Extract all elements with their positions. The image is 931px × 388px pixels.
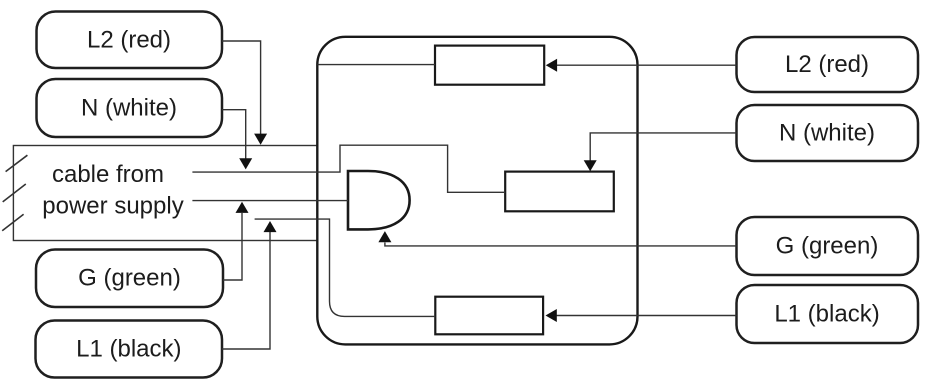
svg-text:L2 (red): L2 (red) (785, 51, 869, 78)
arrowhead N right pointing down (584, 160, 597, 171)
svg-text:cable from: cable from (52, 161, 164, 188)
wire L1 black from cable to bottom terminal (255, 219, 436, 316)
label box G (green) right (737, 217, 919, 275)
svg-text:L1 (black): L1 (black) (774, 300, 879, 327)
wire L2 red inside box to top terminal (317, 64, 435, 66)
wire from L2 left label (222, 41, 261, 134)
terminal block middle (N connector) (505, 172, 614, 212)
wire from L1 right label to bottom terminal (557, 315, 737, 317)
ground lug D-shape (348, 171, 410, 229)
label box L2 (red) right (737, 37, 919, 92)
terminal block bottom (L1 connector) (435, 297, 543, 335)
arrowhead G left pointing up (236, 202, 249, 213)
svg-text:G (green): G (green) (78, 265, 181, 292)
terminal block top (L2 connector) (435, 46, 544, 85)
arrowhead G right pointing up (378, 231, 391, 242)
wire from G right label to ground lug (385, 243, 737, 246)
label box L2 (red) left (37, 12, 223, 69)
svg-text:power supply: power supply (42, 193, 183, 220)
wire G green from cable to ground lug (192, 200, 348, 202)
wire from N right label to middle terminal (590, 133, 736, 161)
arrowhead L1 right pointing left (546, 309, 557, 322)
svg-text:N (white): N (white) (779, 119, 875, 146)
cable break slash 3 (2, 214, 23, 230)
label box G (green) left (36, 250, 223, 308)
svg-text:G (green): G (green) (776, 232, 879, 259)
arrowhead L2 left pointing down (254, 134, 267, 145)
wire from G left label (223, 213, 242, 280)
arrowhead L1 left pointing up (264, 221, 277, 232)
wire from L2 right label to top terminal (557, 64, 737, 66)
arrowhead N left pointing down (239, 158, 252, 169)
label box L1 (black) left (36, 321, 223, 378)
svg-text:N (white): N (white) (81, 94, 177, 121)
label box N (white) left (37, 79, 223, 137)
cable from power supply rectangle (13, 146, 317, 241)
svg-text:L2 (red): L2 (red) (87, 26, 171, 53)
label box L1 (black) right (737, 285, 919, 343)
cable break slash 2 (3, 184, 26, 202)
wire from N left label (222, 110, 246, 159)
power supply box U1 (317, 37, 637, 345)
cable break slash 1 (6, 155, 28, 171)
wire from L1 left label (222, 232, 270, 349)
wire N white from cable to middle terminal (192, 145, 505, 192)
label box N (white) right (737, 105, 919, 161)
arrowhead L2 right pointing left (546, 59, 557, 72)
svg-text:L1 (black): L1 (black) (76, 335, 181, 362)
